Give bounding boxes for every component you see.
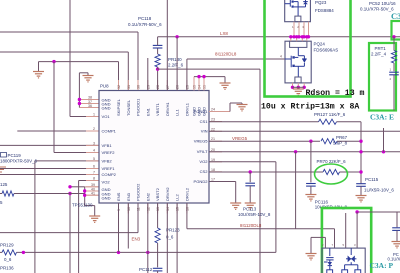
highlight green box small top right [392, 21, 400, 40]
wire GND bus bottom [17, 251, 276, 253]
svg-text:20: 20 [211, 148, 215, 152]
PQ24 drain stubs to LX8 [290, 37, 292, 41]
capacitor PC119 label [1, 153, 7, 158]
svg-text:PC115: PC115 [365, 177, 379, 182]
GND trio bus vertical to ground [78, 73, 80, 108]
svg-text:PC119: PC119 [8, 153, 22, 158]
ground for pin17 [230, 203, 241, 209]
ground for PC113 [245, 203, 256, 209]
ground for GND trio left [83, 76, 94, 82]
GND trio top bus [194, 76, 225, 78]
wire pin 8 net [79, 180, 99, 182]
svg-text:VO2: VO2 [199, 159, 208, 164]
svg-text:VREF2: VREF2 [102, 150, 116, 155]
svg-text:VFB2: VFB2 [102, 158, 113, 163]
svg-text:VFB1: VFB1 [102, 143, 113, 148]
FET gate stub from DRVL2 [334, 229, 336, 248]
wire pin14 down [166, 203, 168, 273]
resistor PR125 [2, 191, 14, 196]
resistor PR129 [2, 250, 17, 255]
wire GND rail lower x=70 [69, 194, 71, 273]
transistor PQ23 high-side MOSFET box [285, 0, 311, 22]
ground for TPS51130 [89, 216, 100, 222]
highlight green box PRT1 [369, 43, 396, 111]
GND trio 38/37/36 stubs [79, 99, 99, 101]
wire EN1 pin 29 stub [147, 58, 149, 91]
svg-text:DRVH2: DRVH2 [165, 187, 170, 201]
PQ24 drain tab [290, 41, 307, 47]
wire PGND1 pin24 to ground [209, 111, 230, 113]
wire VO1 to pin 1 [70, 116, 99, 118]
wire SKIPSEL vertical to pin 32 [118, 62, 120, 91]
svg-text:COMP1: COMP1 [102, 129, 117, 134]
svg-text:PQ23: PQ23 [315, 0, 327, 5]
wire VFB1 to pin 3 [0, 144, 99, 146]
svg-text:VFILT: VFILT [197, 149, 208, 154]
svg-text:8I1120DL8: 8I1120DL8 [215, 52, 237, 57]
svg-text:30: 30 [137, 85, 141, 89]
capacitor in PRT1 box [389, 72, 399, 75]
svg-text:DRVL1: DRVL1 [184, 102, 189, 116]
PQ24 source stubs to ground bus [292, 83, 294, 87]
PQ23 source notch [295, 16, 301, 22]
wire VFILT pin20 [209, 151, 400, 153]
svg-text:0.1U/X7R-50V_6: 0.1U/X7R-50V_6 [360, 7, 394, 12]
svg-text:PR129: PR129 [0, 243, 14, 248]
wire SKIPSEL horizontal to ground [39, 61, 119, 63]
svg-text:PRT1: PRT1 [375, 46, 387, 51]
svg-text:18: 18 [211, 168, 215, 172]
svg-text:8I1120DL8: 8I1120DL8 [240, 223, 262, 228]
PQ25 internals left FET [324, 248, 334, 273]
svg-text:GND: GND [102, 196, 111, 201]
svg-text:SKIPSEL: SKIPSEL [116, 98, 121, 116]
wire pin12 down [147, 203, 149, 273]
svg-text:FDS8884: FDS8884 [315, 8, 334, 13]
capacitor PC118 chain: pin28 bootstrap [157, 69, 159, 90]
wire TONSEL vertical to pin 31 [127, 52, 129, 91]
wire VO2 pin18 [209, 171, 323, 173]
svg-text:DRVL2: DRVL2 [184, 187, 189, 201]
wire pin 6 [0, 168, 99, 170]
svg-text:1800P/X7R-50V_6: 1800P/X7R-50V_6 [0, 159, 38, 164]
wire COMP1 to pin 2 [17, 130, 99, 132]
svg-text:PR67: PR67 [336, 135, 348, 140]
svg-text:CS1: CS1 [200, 119, 209, 124]
svg-text:LL1: LL1 [175, 108, 180, 116]
svg-text:24: 24 [211, 108, 215, 112]
svg-text:EN3: EN3 [126, 192, 131, 201]
resistor PR70 circled [323, 169, 340, 174]
svg-text:19: 19 [211, 158, 215, 162]
wire pin 8 vertical down [78, 181, 80, 273]
svg-text:0_6: 0_6 [4, 257, 12, 262]
svg-text:ENS: ENS [116, 192, 121, 201]
wire DRVH1 pin 27 to top [166, 0, 168, 91]
svg-text:VO1: VO1 [102, 114, 111, 119]
wire DRVL1 pin 25 gate drive [186, 59, 188, 91]
resistor PR67 [321, 139, 337, 144]
pin stubs salmon overlay [86, 99, 99, 101]
wire pin19 vertical to GND bus [275, 162, 277, 253]
wire pin15 down [176, 203, 178, 273]
svg-text:LL2: LL2 [175, 193, 180, 201]
svg-text:LX8: LX8 [220, 31, 228, 36]
wire CS1 pin23 [209, 121, 319, 123]
wire pin9 down to GND bus [118, 203, 120, 252]
svg-text:22: 22 [211, 127, 215, 131]
wire pin10 EN3 stub [127, 203, 129, 249]
svg-text:Rdson = 13 m: Rdson = 13 m [306, 88, 365, 98]
svg-text:C3A: P: C3A: P [370, 261, 394, 270]
svg-text:0.1U/X7R-50V_6: 0.1U/X7R-50V_6 [128, 22, 162, 27]
wire PR125 output to GND bus [14, 193, 85, 195]
wire vertical rail x=54 to pin 4 [53, 62, 55, 153]
capacitor PC118 [157, 48, 159, 54]
svg-text:VO2: VO2 [102, 180, 111, 185]
resistor PR123 [155, 228, 160, 243]
svg-text:PR123: PR123 [166, 228, 180, 233]
svg-text:VREG5: VREG5 [232, 136, 248, 141]
wire rail x=34.9 from pin 5 down [35, 160, 99, 162]
svg-text:PR136: PR136 [0, 266, 14, 271]
svg-text:C3: C3 [391, 11, 400, 21]
resistor PR127 [319, 119, 337, 124]
FET stub 1 from ground bus [324, 237, 326, 248]
svg-text:PR130: PR130 [168, 57, 182, 62]
svg-text:PGND1: PGND1 [194, 109, 209, 114]
wire net LX8 [158, 36, 400, 38]
PQ25 internals right FET [342, 248, 361, 273]
transistor PQ24 low-side MOSFET box [285, 41, 311, 83]
wire pin16 DRVL2 net [186, 203, 188, 229]
cropped red symbol at left edge [0, 167, 6, 172]
capacitor cropped at right edge [396, 212, 398, 227]
svg-text:PR127 11K/F_6: PR127 11K/F_6 [314, 112, 346, 117]
svg-text:PC113: PC113 [243, 207, 257, 212]
svg-text:PGND2: PGND2 [194, 179, 209, 184]
ground for top GND trio [220, 83, 231, 89]
svg-text:CS2: CS2 [200, 169, 209, 174]
capacitor PC116 chain from VREG5 line [309, 140, 312, 143]
svg-text:2.2/F_4: 2.2/F_4 [371, 52, 387, 57]
svg-text:VBST2: VBST2 [155, 187, 160, 201]
svg-text:TPS51130: TPS51130 [72, 203, 93, 208]
svg-text:31: 31 [127, 85, 131, 89]
wire pin13 with PR123 [157, 203, 159, 228]
node GND rail junction [68, 192, 71, 195]
svg-text:GND: GND [102, 106, 111, 111]
node junction on SKIPSEL net [52, 60, 55, 63]
svg-text:32: 32 [117, 85, 121, 89]
pins 39-41 bus to ground [84, 187, 86, 206]
svg-text:23: 23 [211, 118, 215, 122]
svg-text:1U/X5R-10V_6: 1U/X5R-10V_6 [364, 188, 394, 193]
wire PRT1 node down to pin20 line [383, 128, 385, 152]
wire vertical rail x=260 [259, 69, 261, 273]
PQ23 internals [285, 0, 308, 16]
ground for PC116 [305, 195, 316, 201]
svg-text:FDS6696AS: FDS6696AS [314, 48, 339, 53]
PQ24 source notch [295, 77, 301, 83]
ground cropped at right edge [392, 242, 400, 248]
wire net TONSEL horizontal [0, 51, 128, 53]
inductor PRT1 [393, 37, 395, 51]
PQ23 source stubs to LX8 [293, 22, 295, 37]
wire bootstrap node to x=260 rail [158, 68, 260, 70]
svg-text:PC112: PC112 [139, 267, 153, 272]
wire COMP2 to pin 7 [0, 174, 99, 176]
svg-text:COMP2: COMP2 [102, 172, 117, 177]
svg-text:PQ24: PQ24 [314, 42, 326, 47]
pins 39/40/41 stubs [85, 186, 99, 188]
svg-text:C3A: E: C3A: E [370, 113, 394, 122]
wire VO1 vertical rail from top [69, 0, 71, 117]
svg-text:VIN: VIN [201, 129, 208, 134]
svg-text:10U/X5R-10V_8: 10U/X5R-10V_8 [238, 212, 271, 217]
wire LL1 pin 26 to LX8 [175, 35, 178, 38]
svg-text:DRVH1: DRVH1 [165, 102, 170, 116]
svg-text:17: 17 [211, 178, 215, 182]
wire pin39 net to rail [70, 186, 85, 188]
capacitor PC115 [356, 184, 366, 187]
svg-text:EN2: EN2 [145, 192, 150, 201]
svg-text:PC118: PC118 [138, 16, 152, 21]
svg-text:VREG5: VREG5 [194, 139, 208, 144]
wire CS1 vertical to PC115 [360, 122, 362, 184]
wire PGOOD1 vertical to pin 30 [137, 32, 139, 91]
node LX8 to PRT1 [392, 35, 395, 38]
ground symbol bottom left of box [306, 254, 317, 260]
wire CS sense into FET box [345, 213, 347, 248]
svg-text:PGOOD1: PGOOD1 [136, 98, 141, 116]
svg-text:EN3: EN3 [132, 237, 141, 242]
svg-text:VREF1: VREF1 [102, 166, 116, 171]
wire pin11 PGOOD2 [137, 203, 139, 233]
wire node at top of bottom green box [357, 211, 400, 213]
svg-text:TONSEL: TONSEL [126, 99, 131, 116]
resistor PR130 [155, 54, 160, 67]
ground for PGND1 [237, 105, 248, 111]
wire from pin20 node down to DRVL2 net [295, 152, 297, 229]
svg-text:21: 21 [211, 137, 215, 141]
wire VREG5 pin21 [209, 140, 320, 142]
GND trio top stubs [193, 77, 195, 91]
capacitor PC113 drop from pin18 net [249, 170, 252, 173]
ground for PQ24 source [293, 89, 304, 95]
highlight green box bottom right [322, 208, 371, 273]
svg-text:VBST1: VBST1 [155, 102, 160, 116]
wire VIN pin22 [209, 130, 400, 132]
transistor PQ25 dual MOSFET box bottom [322, 248, 365, 273]
wire CS2 pin19 [209, 161, 276, 163]
PQ24 internals [285, 47, 307, 77]
capacitor PC112 [153, 268, 163, 271]
svg-text:PU8: PU8 [100, 84, 109, 89]
wire VFB2 pin17 to ground [209, 181, 236, 183]
svg-text:2.2/F_6: 2.2/F_6 [168, 63, 184, 68]
ground left of FET box [310, 237, 312, 253]
highlight green ellipse around PR70 [315, 164, 348, 184]
svg-text:PC52 10U/16: PC52 10U/16 [369, 1, 396, 6]
svg-text:10u x Rtrip=13m x 8A: 10u x Rtrip=13m x 8A [261, 102, 359, 112]
svg-text:125: 125 [0, 182, 8, 187]
ground for PC115 [356, 196, 367, 202]
wire net PGOOD1 top horizontal [0, 31, 138, 33]
highlight green box top [265, 0, 351, 97]
svg-text:EN1: EN1 [145, 107, 150, 116]
svg-text:4: 4 [280, 55, 282, 59]
op-amp U8 main controller IC box [99, 91, 209, 204]
ground for SKIPSEL [38, 62, 40, 72]
svg-text:PGOOD2: PGOOD2 [136, 183, 141, 201]
